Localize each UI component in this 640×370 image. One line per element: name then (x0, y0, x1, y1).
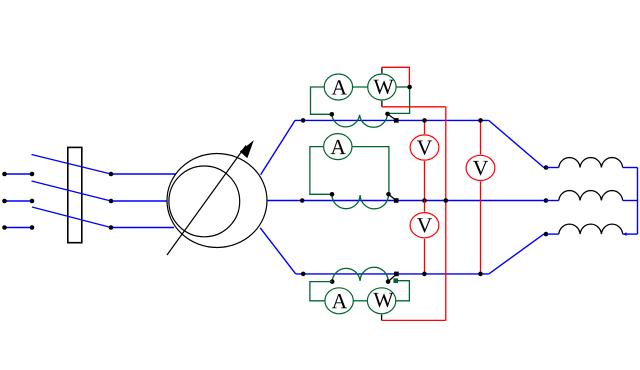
W2 bottom stub (381, 315, 383, 321)
node L3 dots (2, 225, 7, 230)
CT3 winding (332, 267, 388, 281)
wire phase A top horizontal (295, 119, 489, 121)
wire C end tick (623, 232, 627, 236)
node W2 green terminal (393, 278, 398, 283)
ammeter A3 (325, 288, 353, 314)
node load C (544, 232, 549, 237)
node red bus on phase B (444, 198, 449, 203)
node A1 (301, 118, 306, 123)
wire contact2 to variac (111, 200, 168, 202)
V1 wire top (424, 120, 426, 134)
wire phase C diagonal to load (489, 234, 544, 274)
V3 wire bottom (424, 239, 426, 274)
wire A3 to W2 (353, 300, 368, 302)
wire A2 right to CT2 (352, 147, 389, 195)
node CT2 right (386, 192, 391, 197)
node V3 bottom (422, 272, 427, 277)
inductor load C (559, 224, 623, 234)
variac inner circle (169, 166, 240, 237)
node L1 dots (2, 172, 7, 177)
inductor load B (559, 191, 623, 201)
wire phase A diagonal from variac (261, 120, 295, 174)
node contact 3 (109, 225, 114, 230)
switch blade 1 (32, 155, 112, 175)
wire contact3 to variac (111, 227, 174, 229)
CT3 tap to phase C (388, 274, 396, 281)
variac arrowhead (240, 140, 254, 158)
wattmeter W2 label (373, 293, 393, 307)
node tap C (394, 272, 399, 277)
variac arrow shaft (167, 146, 246, 256)
wire A1 left to CT1 (311, 87, 332, 114)
node tap B (394, 198, 399, 203)
wire A1 to W1 (352, 86, 368, 88)
voltmeter V1 label (417, 141, 432, 155)
V1 wire bottom (424, 161, 426, 201)
wire junction down to CT1 right (388, 87, 409, 113)
voltmeter V3 label (417, 218, 432, 232)
switch gang bar (68, 147, 82, 242)
node CT3 left (330, 279, 335, 284)
wire A3 left to CT3 (310, 282, 332, 301)
inductor load A (559, 158, 623, 168)
wattmeter W2 (367, 288, 395, 314)
load star wire C (623, 233, 638, 235)
switch blade 3 (32, 207, 111, 228)
voltmeter V2 (466, 155, 495, 180)
W2 voltage wire red bottom (382, 319, 446, 321)
wire phase C diagonal from variac (260, 228, 296, 274)
ammeter A1 label (332, 80, 347, 94)
node CT1 left (330, 112, 335, 117)
node B1 (300, 198, 305, 203)
CT2 tap to phase B (389, 194, 397, 200)
wattmeter W1 label (373, 80, 393, 94)
red potential bus vertical (445, 107, 447, 321)
load star vertical wire (637, 168, 639, 235)
voltmeter V3 (410, 213, 439, 238)
ammeter A2 (324, 134, 352, 160)
ammeter A1 (324, 74, 352, 100)
terminal L2 (4, 200, 32, 202)
node V2 bottom (478, 272, 483, 277)
node V1 top (422, 118, 427, 123)
node load B (544, 198, 549, 203)
load star wire A (623, 167, 638, 169)
variac outer circle (167, 154, 267, 248)
switch blade 2 (32, 181, 112, 201)
wire A2 left to CT2 (310, 147, 332, 195)
wire to inductor B (546, 200, 559, 202)
node CT1 right (385, 112, 390, 117)
wire phase B horizontal (267, 200, 544, 202)
voltmeter V1 (410, 135, 439, 160)
terminal L3 (4, 227, 32, 229)
node contact 1 (109, 172, 114, 177)
node L2 dots (2, 199, 7, 204)
wattmeter W1 (368, 74, 396, 100)
CT1 winding (332, 114, 388, 127)
node contact 2 (109, 199, 114, 204)
CT1 tap to phase A (388, 114, 397, 121)
terminal L1 (4, 173, 32, 175)
node W1 junction (407, 85, 412, 90)
node V1 bottom (422, 198, 427, 203)
node CT3 right (386, 279, 391, 284)
load star wire B (623, 200, 638, 202)
wire phase C bottom horizontal (296, 273, 489, 275)
V3 wire top (424, 201, 426, 212)
wire W1 right to junction (396, 86, 410, 88)
CT2 winding (332, 194, 389, 209)
W1 bottom stub (381, 101, 383, 107)
V2 wire top (480, 120, 482, 154)
voltmeter V2 label (473, 161, 488, 175)
wire to inductor C (546, 233, 559, 235)
W1 voltage wire red top (382, 67, 410, 86)
W1 voltage wire red bottom (382, 106, 446, 108)
ammeter A3 label (332, 294, 347, 308)
wire contact1 to variac (111, 173, 176, 175)
node tap A (394, 118, 399, 123)
node C1 (301, 272, 306, 277)
wire to inductor A (546, 167, 559, 169)
wire W2 right up to CT3 (395, 281, 409, 301)
node CT2 left (330, 192, 335, 197)
V2 wire bottom (480, 181, 482, 274)
node V2 top (478, 118, 483, 123)
wire phase A diagonal to load (489, 120, 544, 167)
node load A (544, 165, 549, 170)
ammeter A2 label (331, 140, 346, 154)
W1 top stub (381, 67, 383, 73)
